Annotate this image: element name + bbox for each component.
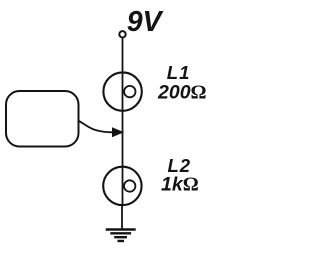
lamp L2 <box>103 167 141 205</box>
ground <box>106 230 136 242</box>
wire: lamp L2 to ground <box>121 205 123 229</box>
callout box (empty rounded rectangle) <box>6 91 79 147</box>
svg-text:1kΩ: 1kΩ <box>161 174 199 196</box>
svg-text:9V: 9V <box>127 6 164 38</box>
svg-text:L1: L1 <box>167 62 191 83</box>
terminal 9V (open circle) <box>119 31 125 37</box>
svg-text:200Ω: 200Ω <box>157 82 207 104</box>
wire: 9V terminal to lamp L1 <box>122 38 124 73</box>
callout leader arrow to node between L1 and L2 <box>78 120 124 137</box>
lamp L1 <box>103 72 141 110</box>
wire: lamp L1 to lamp L2 <box>122 111 124 167</box>
